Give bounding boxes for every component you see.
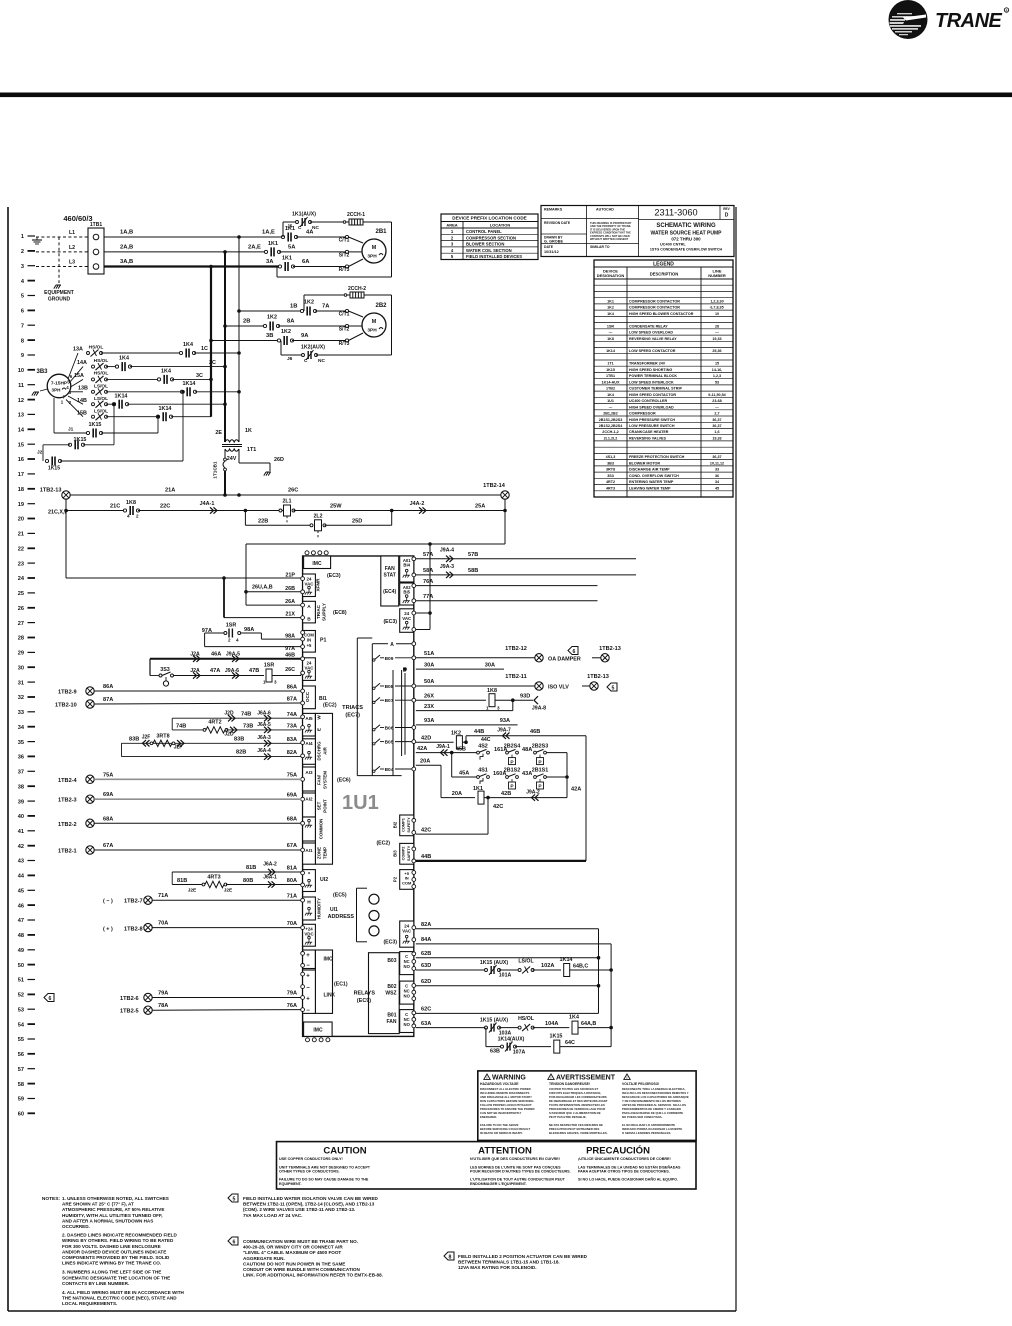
svg-text:P2: P2 — [393, 876, 398, 882]
wire 73B line34 — [171, 718, 173, 730]
svg-text:13A: 13A — [73, 347, 83, 353]
svg-text:C/T1: C/T1 — [339, 238, 350, 244]
svg-text:(EC2): (EC2) — [323, 703, 337, 709]
svg-text:J9A-7: J9A-7 — [497, 728, 511, 734]
svg-text:2B2S4: 2B2S4 — [504, 743, 520, 749]
svg-text:104A: 104A — [545, 1021, 558, 1027]
svg-text:1K4: 1K4 — [119, 356, 129, 362]
svg-text:1,6: 1,6 — [714, 430, 719, 434]
svg-text:SAFETY: SAFETY — [406, 845, 411, 861]
svg-text:E: E — [317, 728, 322, 731]
triac B04 — [373, 770, 375, 772]
svg-text:98A: 98A — [244, 627, 254, 633]
wire 1A,B — [104, 236, 283, 238]
svg-text:14: 14 — [18, 428, 25, 434]
svg-text:1K15: 1K15 — [550, 1033, 563, 1039]
equipment ground dashed wire — [58, 237, 60, 283]
svg-text:072 THRU 300: 072 THRU 300 — [671, 237, 701, 242]
svg-text:J2E: J2E — [224, 888, 233, 894]
svg-text:B02: B02 — [387, 984, 396, 990]
wire 69A gray — [94, 798, 301, 800]
svg-text:1K2(AUX): 1K2(AUX) — [301, 345, 325, 351]
svg-text:36,37: 36,37 — [712, 424, 721, 428]
svg-text:63A: 63A — [421, 1021, 431, 1027]
wire 42C — [487, 798, 489, 835]
svg-text:81A: 81A — [287, 866, 297, 872]
svg-text:46: 46 — [18, 903, 24, 909]
svg-text:(COM). 2 WIRE VALVES USE 1TB2-: (COM). 2 WIRE VALVES USE 1TB2-11 AND 1TB… — [243, 1207, 355, 1212]
svg-text:13: 13 — [18, 413, 24, 419]
svg-text:68A: 68A — [287, 817, 297, 823]
triac B07 — [373, 701, 375, 703]
svg-text:1SR: 1SR — [226, 623, 237, 629]
wire 83B line35 — [122, 742, 302, 744]
svg-text:1TB2-13: 1TB2-13 — [587, 674, 609, 680]
svg-text:42A: 42A — [417, 746, 427, 752]
svg-text:17: 17 — [18, 472, 24, 478]
right frame border — [735, 207, 737, 1311]
svg-text:4S1,3: 4S1,3 — [606, 455, 616, 459]
svg-text:TRANSFORMER 24V: TRANSFORMER 24V — [629, 362, 666, 366]
svg-text:74B: 74B — [176, 724, 186, 730]
svg-text:9: 9 — [21, 353, 24, 359]
svg-text:3S3: 3S3 — [160, 667, 170, 673]
svg-text:J4A-1: J4A-1 — [200, 501, 215, 507]
transformer core — [222, 444, 242, 446]
svg-text:J9A-1: J9A-1 — [436, 744, 450, 750]
svg-text:1. UNLESS OTHERWISE NOTED, ALL: 1. UNLESS OTHERWISE NOTED, ALL SWITCHES — [62, 1196, 169, 1201]
svg-text:2B2S3: 2B2S3 — [532, 743, 548, 749]
svg-text:68A: 68A — [103, 816, 113, 822]
connector B01 FAN — [400, 1010, 414, 1033]
svg-text:54: 54 — [18, 1022, 25, 1028]
svg-text:44C: 44C — [481, 737, 491, 743]
svg-text:L1: L1 — [69, 230, 75, 236]
svg-text:58A: 58A — [423, 568, 433, 574]
svg-text:DATE: DATE — [544, 245, 554, 249]
connector COMP2 SAFETY BI3 — [400, 843, 414, 864]
wire 44B 44C 46B upper — [465, 736, 467, 743]
wire 1B — [239, 310, 304, 312]
svg-text:36: 36 — [715, 474, 719, 478]
svg-text:86A: 86A — [287, 685, 297, 691]
svg-text:15: 15 — [715, 362, 719, 366]
svg-text:60: 60 — [18, 1112, 24, 1118]
svg-text:1K8: 1K8 — [487, 688, 497, 694]
svg-text:26U,A,B: 26U,A,B — [252, 584, 273, 590]
low pressure switch 2B2S4 — [506, 751, 509, 754]
svg-text:NO: NO — [404, 1022, 411, 1027]
svg-text:15A: 15A — [74, 373, 84, 379]
svg-text:74B: 74B — [241, 712, 251, 718]
svg-text:NOTES:: NOTES: — [42, 1196, 61, 1202]
svg-text:71A: 71A — [158, 893, 168, 899]
svg-text:64B,C: 64B,C — [573, 964, 588, 970]
svg-text:1K: 1K — [245, 428, 252, 434]
wire 84A — [416, 943, 611, 945]
svg-text:70A: 70A — [287, 921, 297, 927]
svg-text:LOW SPEED CONTACTOR: LOW SPEED CONTACTOR — [629, 349, 676, 353]
svg-text:L3: L3 — [69, 260, 75, 266]
svg-text:43A: 43A — [522, 771, 532, 777]
svg-text:32: 32 — [18, 695, 24, 701]
notes block — [42, 1196, 185, 1306]
svg-text:2CCH-2: 2CCH-2 — [348, 286, 366, 292]
svg-text:103A: 103A — [499, 1030, 512, 1036]
svg-text:CRANKCASE HEATER: CRANKCASE HEATER — [629, 430, 669, 434]
svg-text:IMC: IMC — [312, 561, 322, 567]
svg-text:HS/OL: HS/OL — [94, 371, 109, 377]
wire 76A — [416, 585, 598, 587]
svg-text:CUSTOMER TERMINAL STRIP: CUSTOMER TERMINAL STRIP — [629, 387, 682, 391]
svg-text:25A: 25A — [475, 504, 485, 510]
svg-text:1K14: 1K14 — [560, 957, 573, 963]
triac B06 — [373, 729, 375, 731]
svg-text:28: 28 — [18, 636, 24, 642]
svg-text:WIRING BY OTHERS. FIELD WIRING: WIRING BY OTHERS. FIELD WIRING TO BE RAT… — [62, 1238, 174, 1243]
wire 75A gray — [94, 778, 301, 780]
svg-text:3PH: 3PH — [367, 328, 377, 334]
svg-text:2B1S2: 2B1S2 — [504, 768, 520, 774]
wire 30A — [416, 668, 504, 670]
svg-text:1K15: 1K15 — [48, 466, 60, 472]
svg-text:HIGH SPEED OVERLOAD: HIGH SPEED OVERLOAD — [629, 405, 674, 409]
svg-text:(EC9): (EC9) — [357, 998, 371, 1004]
wire 20A line37 — [416, 764, 441, 766]
svg-text:BI4: BI4 — [403, 563, 410, 568]
wire to EC3 24VAC right — [429, 544, 431, 630]
svg-text:57A: 57A — [423, 552, 433, 558]
svg-text:N'UTILISER QUE DES CONDUCTEURS: N'UTILISER QUE DES CONDUCTEURS EN CUIVRE… — [470, 1157, 560, 1161]
svg-text:HIGH SPEED SHORTING: HIGH SPEED SHORTING — [629, 368, 672, 372]
wire 79A — [152, 997, 301, 999]
svg-text:48: 48 — [18, 933, 24, 939]
aux contact 1K2(AUX) J6 — [280, 341, 282, 356]
svg-text:DEVICE PREFIX LOCATION CODE: DEVICE PREFIX LOCATION CODE — [452, 216, 526, 221]
svg-text:3B3: 3B3 — [36, 369, 48, 375]
svg-text:J2: J2 — [37, 450, 43, 456]
svg-text:69A: 69A — [103, 792, 113, 798]
svg-text:+: + — [306, 997, 310, 1003]
svg-text:57B: 57B — [468, 552, 478, 558]
svg-text:1A,B: 1A,B — [120, 230, 133, 236]
svg-text:74A: 74A — [287, 712, 297, 718]
svg-text:1K4: 1K4 — [161, 369, 171, 375]
svg-text:IN: IN — [307, 637, 311, 642]
svg-text:4S2: 4S2 — [478, 743, 488, 749]
connector UI1 HUMIDITY — [303, 897, 316, 920]
svg-text:PRECAUCIÓN: PRECAUCIÓN — [586, 1145, 650, 1157]
svg-text:J9A-3: J9A-3 — [440, 564, 454, 570]
svg-text:J9A-2: J9A-2 — [526, 790, 540, 796]
svg-text:46B: 46B — [530, 729, 540, 735]
svg-text:45: 45 — [18, 889, 24, 895]
svg-text:3B3: 3B3 — [607, 461, 614, 465]
svg-text:67A: 67A — [103, 843, 113, 849]
wire L3 field — [36, 266, 88, 268]
svg-text:1SR: 1SR — [264, 663, 275, 669]
svg-text:TEMP: TEMP — [323, 847, 328, 859]
svg-text:30A: 30A — [485, 662, 495, 668]
svg-text:77A: 77A — [423, 594, 433, 600]
svg-text:1K14: 1K14 — [606, 349, 616, 353]
svg-text:J6A-2: J6A-2 — [263, 862, 277, 868]
svg-text:OCCURRED.: OCCURRED. — [62, 1224, 90, 1229]
wire 51A OA damper line — [416, 657, 535, 659]
wire 50A ISO VLV — [416, 685, 535, 687]
svg-text:AI1: AI1 — [305, 848, 313, 853]
svg-text:VAC: VAC — [402, 928, 412, 933]
svg-text:1K4: 1K4 — [607, 393, 615, 397]
svg-text:AI2: AI2 — [305, 797, 313, 802]
top rule bar — [0, 93, 1012, 98]
svg-text:31: 31 — [18, 680, 24, 686]
svg-text:PEUT PAS ETRE RETABLIE.: PEUT PAS ETRE RETABLIE. — [549, 1115, 587, 1119]
triacs bracket EC7 — [357, 637, 372, 639]
wire 3A,B thick — [104, 265, 280, 267]
svg-text:FOR 300 VOLTS. DASHED LINE ENC: FOR 300 VOLTS. DASHED LINE ENCLOSURE — [62, 1244, 161, 1249]
svg-text:HS/OL: HS/OL — [89, 345, 104, 351]
svg-text:83B: 83B — [234, 736, 244, 742]
svg-text:+5: +5 — [307, 643, 312, 648]
svg-text:1U1: 1U1 — [607, 399, 614, 403]
svg-text:75A: 75A — [287, 773, 297, 779]
svg-text:26X: 26X — [424, 693, 434, 699]
contact 1K15 J1 line14 — [53, 398, 55, 433]
svg-text:1K1: 1K1 — [607, 299, 614, 303]
wire 2A,B — [104, 251, 266, 253]
wire 82A — [416, 928, 599, 930]
svg-text:CAUTION: CAUTION — [323, 1146, 366, 1157]
svg-text:J6A-1: J6A-1 — [263, 875, 277, 881]
relay coil 1K14 — [564, 964, 570, 977]
svg-text:6: 6 — [21, 309, 24, 315]
svg-text:HAZARDOUS VOLTAGE: HAZARDOUS VOLTAGE — [480, 1082, 519, 1086]
svg-text:59: 59 — [18, 1097, 24, 1103]
svg-text:23X: 23X — [424, 704, 434, 710]
svg-text:1TB2-11: 1TB2-11 — [505, 674, 526, 680]
svg-text:AND/OR DASHED DEVICE OUTLINES: AND/OR DASHED DEVICE OUTLINES INDICATE — [62, 1249, 166, 1254]
svg-text:J5: J5 — [287, 224, 293, 230]
svg-text:45A: 45A — [459, 771, 469, 777]
motor terminal R/T3 comp1 — [345, 265, 348, 268]
svg-text:(EC6): (EC6) — [337, 778, 351, 784]
svg-text:5: 5 — [233, 1196, 236, 1202]
svg-text:13B: 13B — [78, 386, 88, 392]
svg-text:1TB2-12: 1TB2-12 — [505, 646, 527, 652]
note flag 6 text — [228, 1237, 383, 1278]
svg-text:1K4: 1K4 — [569, 1014, 579, 1020]
svg-text:14B: 14B — [77, 398, 87, 404]
wire 82A vertical bus — [598, 929, 600, 1014]
equipment ground — [56, 284, 61, 286]
svg-text:25: 25 — [18, 591, 24, 597]
svg-text:21C: 21C — [110, 504, 120, 510]
svg-text:B09: B09 — [385, 656, 394, 662]
caution label box — [277, 1142, 697, 1189]
svg-text:8: 8 — [449, 1254, 452, 1260]
wire 62C — [416, 1012, 599, 1014]
wire 62D — [416, 985, 599, 987]
svg-text:26D: 26D — [274, 457, 284, 463]
svg-text:1TB2-13: 1TB2-13 — [40, 488, 62, 494]
svg-text:AI5: AI5 — [305, 716, 313, 721]
svg-text:7A: 7A — [322, 304, 330, 310]
svg-text:21: 21 — [18, 532, 24, 538]
svg-text:40: 40 — [18, 814, 24, 820]
wire 42A safety chain line35 — [416, 752, 478, 754]
svg-text:B03: B03 — [387, 958, 396, 964]
svg-text:400-20-28, OR WINDY CITY OR CO: 400-20-28, OR WINDY CITY OR CONNECT AIR — [243, 1245, 343, 1250]
svg-text:30A: 30A — [424, 662, 434, 668]
svg-text:IN DEATH OR SERIOUS INJURY.: IN DEATH OR SERIOUS INJURY. — [480, 1131, 523, 1135]
relay coil 1K4b — [572, 1021, 578, 1034]
motor terminal S/T2 comp1 — [345, 250, 348, 253]
svg-text:2311-3060: 2311-3060 — [654, 208, 697, 218]
note flag 5 text — [228, 1194, 379, 1218]
svg-text:WATER COIL SECTION: WATER COIL SECTION — [466, 248, 512, 253]
svg-text:3PH: 3PH — [367, 254, 377, 260]
svg-text:81B: 81B — [246, 865, 256, 871]
connector AI2 SET POINT — [303, 793, 316, 817]
svg-text:R/T3: R/T3 — [339, 267, 350, 273]
wire 42A vertical right — [566, 753, 568, 798]
wire 25D — [325, 524, 392, 526]
svg-text:VDC: VDC — [304, 931, 314, 936]
svg-text:1K8: 1K8 — [126, 500, 136, 506]
wire 63A row — [416, 1027, 486, 1029]
svg-text:UC400 CNTRL: UC400 CNTRL — [660, 243, 686, 247]
svg-text:COMMON: COMMON — [319, 819, 324, 840]
svg-text:1K2: 1K2 — [607, 306, 614, 310]
wire 23X — [416, 710, 513, 712]
svg-text:58B: 58B — [468, 568, 478, 574]
svg-text:ATTENTION: ATTENTION — [478, 1146, 532, 1157]
svg-text:4: 4 — [127, 514, 130, 519]
svg-text:1K2: 1K2 — [304, 300, 314, 306]
svg-text:+: + — [306, 974, 310, 980]
svg-text:UI2: UI2 — [320, 877, 328, 883]
high pressure switch 2B2S3 — [534, 751, 537, 754]
svg-text:57: 57 — [18, 1067, 24, 1073]
svg-text:45B: 45B — [456, 746, 466, 752]
svg-text:J6: J6 — [287, 356, 293, 362]
svg-text:B06: B06 — [385, 726, 394, 732]
wire phase bus 2A vertical — [224, 252, 226, 442]
svg-text:TRIACS: TRIACS — [342, 705, 363, 711]
svg-text:25W: 25W — [330, 504, 342, 510]
svg-text:3. NUMBERS ALONG THE LEFT SIDE: 3. NUMBERS ALONG THE LEFT SIDE OF THE — [62, 1270, 161, 1275]
svg-text:C: C — [298, 225, 302, 231]
equipment ground symbol small — [36, 237, 38, 240]
svg-text:¡UTILICE ÚNICAMENTE CONDUCTORE: ¡UTILICE ÚNICAMENTE CONDUCTORES DE COBRE… — [578, 1156, 671, 1161]
svg-text:1TB2-9: 1TB2-9 — [58, 689, 77, 695]
relay coil 1K8 wire 26X — [416, 699, 486, 701]
svg-text:29: 29 — [18, 651, 24, 657]
svg-text:1TB1: 1TB1 — [606, 374, 615, 378]
svg-text:NO: NO — [404, 964, 411, 969]
wire 67A — [94, 849, 301, 851]
svg-text:BI3: BI3 — [393, 850, 398, 857]
svg-text:36,37: 36,37 — [712, 455, 721, 459]
svg-text:1STG CONDENSATE OVERFLOW SWITC: 1STG CONDENSATE OVERFLOW SWITCH — [650, 248, 723, 252]
svg-text:26A: 26A — [285, 599, 295, 605]
svg-text:VOLTAJE PELIGROSO!: VOLTAJE PELIGROSO! — [622, 1082, 659, 1086]
svg-text:42A: 42A — [571, 787, 581, 793]
svg-text:2C: 2C — [209, 360, 216, 366]
svg-text:LINK: LINK — [324, 993, 336, 999]
svg-text:AIR: AIR — [323, 746, 328, 754]
svg-text:J2D: J2D — [224, 732, 234, 738]
wire 77A — [416, 600, 598, 602]
svg-text:62B: 62B — [421, 951, 431, 957]
svg-text:IMC: IMC — [313, 1028, 323, 1034]
wire 87A — [94, 703, 301, 704]
svg-text:51: 51 — [18, 978, 24, 984]
svg-text:47B: 47B — [249, 668, 259, 674]
svg-text:1U1: 1U1 — [342, 792, 379, 814]
svg-text:HS/OL: HS/OL — [94, 358, 109, 364]
svg-text:4RT3: 4RT3 — [207, 875, 220, 881]
contactor contact 1K14 line13 — [106, 416, 158, 418]
svg-text:9A: 9A — [301, 333, 309, 339]
svg-text:SUPPLY: SUPPLY — [322, 603, 327, 621]
relay coil 1K15c — [515, 1046, 551, 1048]
svg-text:GROUND: GROUND — [48, 297, 71, 303]
svg-text:22: 22 — [18, 547, 24, 553]
svg-text:1K2: 1K2 — [451, 731, 461, 737]
relay coil 1K1 line39 — [441, 797, 475, 799]
svg-text:1K1: 1K1 — [473, 786, 483, 792]
svg-text:62D: 62D — [421, 979, 431, 985]
svg-text:P1: P1 — [320, 637, 326, 643]
wire 58A 58B — [416, 574, 636, 576]
svg-text:45: 45 — [715, 486, 719, 490]
UC400 controller 1U1 outline — [303, 556, 414, 1036]
svg-text:SI NO LO HACE, PUEDE OCASIONAR: SI NO LO HACE, PUEDE OCASIONAR DAÑO AL E… — [578, 1177, 678, 1182]
freeze switch 4S1 — [477, 776, 480, 779]
wire 13B — [71, 391, 84, 393]
svg-text:3: 3 — [497, 706, 500, 711]
wire 93A — [416, 724, 518, 726]
line number rail — [18, 234, 35, 1117]
svg-text:2E: 2E — [215, 430, 222, 436]
svg-text:®: ® — [1005, 9, 1008, 13]
svg-text:82A: 82A — [421, 922, 431, 928]
svg-text:REVERSING VALVE RELAY: REVERSING VALVE RELAY — [629, 337, 677, 341]
svg-text:2L2: 2L2 — [314, 513, 323, 519]
svg-text:EQUIPMENT: EQUIPMENT — [44, 290, 74, 296]
svg-text:1: 1 — [21, 234, 24, 240]
svg-text:42D: 42D — [421, 735, 431, 741]
svg-text:"LEVEL 4" CABLE. MAXIMUM OF 45: "LEVEL 4" CABLE. MAXIMUM OF 4500 FOOT — [243, 1250, 341, 1255]
wire 74A line33 — [172, 717, 301, 719]
svg-text:BLOWER SECTION: BLOWER SECTION — [466, 242, 504, 247]
svg-text:63B: 63B — [490, 1049, 500, 1055]
legend table — [594, 260, 733, 497]
connector TRIAC SUPPLY — [303, 601, 316, 623]
connector P1 COM IN +5 — [303, 631, 316, 653]
svg-text:DSCHRG: DSCHRG — [317, 741, 322, 761]
svg-text:1TB2-4: 1TB2-4 — [58, 778, 78, 784]
svg-text:76A: 76A — [423, 579, 433, 585]
svg-text:1K4: 1K4 — [183, 342, 193, 348]
contactor contact 1K2 line6 — [300, 309, 303, 312]
svg-text:41: 41 — [18, 829, 24, 835]
wire 26B 26U,A,B — [246, 591, 301, 593]
compressor motor 2B2 — [362, 313, 386, 337]
svg-text:XFMR: XFMR — [316, 578, 321, 592]
